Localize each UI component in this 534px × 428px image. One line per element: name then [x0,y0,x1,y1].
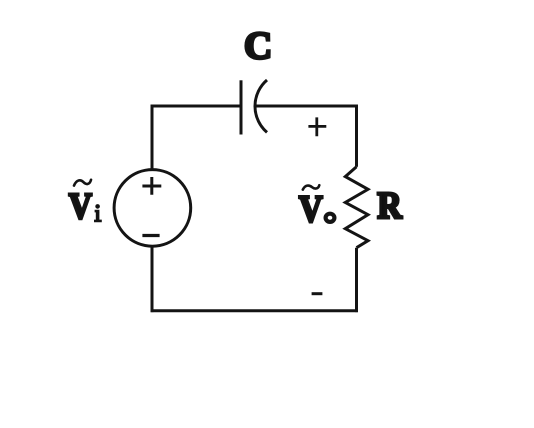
wire: top-right horizontal (capacitor to right branch) [255,105,358,108]
wire: left vertical lower (source to bottom corner) [151,246,154,312]
capacitor C: left plate [240,80,243,134]
voltage source U1: circle [114,170,191,247]
output terminal plus sign [308,117,326,136]
resistor R: zigzag [345,167,368,248]
label Vi: subscript i (dot) [95,204,100,209]
label Vo: tilde [303,185,320,189]
voltage source U1: plus sign [142,177,161,195]
wire: left vertical upper (top corner to source) [151,105,154,170]
svg-text:R: R [377,185,402,227]
label Vi: subscript i (stem and serifs) [94,211,102,221]
label Vi: tilde [74,180,91,186]
label Vo: subscript o [326,214,335,222]
wire: right vertical lower (resistor to bottom corner) [355,248,358,312]
voltage source U1: minus sign [142,234,159,237]
svg-text:V: V [69,186,92,227]
svg-text:C: C [244,25,272,68]
output terminal minus sign [312,292,323,295]
wire: top-left horizontal (source top to capacitor left plate) [151,105,241,108]
svg-text:V: V [299,189,323,231]
capacitor C: curved right plate [255,80,267,132]
wire: bottom horizontal [151,309,358,312]
wire: right vertical upper (top corner to resistor) [355,105,358,167]
